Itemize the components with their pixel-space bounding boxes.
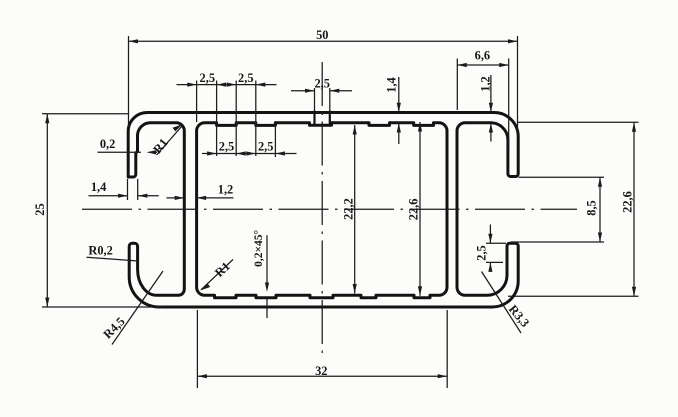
0,2 arrow [147, 150, 157, 154]
25 arrows [45, 114, 49, 307]
lower 2,5 pair: extension line [274, 121, 276, 157]
dim 50 line [129, 40, 518, 42]
dim 50 extension lines [129, 36, 518, 133]
R1 top leader [157, 126, 183, 155]
dim 22,6 right ext lines [508, 122, 639, 296]
R1 top arrow (pointing up-right) [173, 124, 183, 131]
centre line vertical [321, 62, 323, 358]
upper 2,5 dim line [177, 84, 277, 86]
dim 25 extension lines [42, 114, 164, 307]
top wall centre slot walls [315, 111, 330, 124]
dim 8,5 ext lines [511, 177, 604, 242]
upper 2,5 pair: extension lines [197, 81, 256, 157]
dim 25 line [46, 114, 48, 307]
dim 1,4 left lip: ext + line [89, 179, 159, 200]
svg-text:50: 50 [316, 28, 328, 42]
svg-text:22,6: 22,6 [407, 199, 421, 221]
svg-text:2,5: 2,5 [238, 71, 254, 85]
centre 2,5 arrows [305, 89, 339, 93]
dim 6,6 line [457, 64, 508, 66]
dim 6,6 extension lines [457, 59, 508, 151]
dim 22,6 right line [633, 122, 635, 296]
22,2 arrows [353, 125, 357, 294]
0,2x45 arrow [265, 283, 269, 293]
svg-text:1,4: 1,4 [384, 77, 398, 93]
profile outer contour [128, 113, 518, 308]
lower 2,5 arrows [207, 151, 285, 155]
centre 2,5 ext lines [315, 88, 330, 111]
22,6 inner arrows [418, 122, 422, 296]
svg-text:25: 25 [33, 203, 47, 215]
50 arrows [129, 39, 518, 43]
svg-text:0,2: 0,2 [100, 137, 116, 151]
svg-text:32: 32 [315, 364, 327, 378]
centre line horizontal [82, 208, 577, 210]
svg-text:R0,2: R0,2 [88, 244, 112, 258]
svg-text:2,5: 2,5 [474, 245, 488, 261]
6,6 arrows [457, 63, 508, 67]
svg-text:2,5: 2,5 [200, 71, 216, 85]
1,4 top arrows [397, 103, 401, 133]
centre 2,5 dim line [291, 90, 352, 92]
svg-text:8,5: 8,5 [585, 200, 599, 216]
dim 0,2 leader [98, 151, 158, 153]
2,5 bottom right arrows [488, 234, 492, 272]
svg-text:1,4: 1,4 [91, 180, 107, 194]
svg-text:2,5: 2,5 [314, 77, 330, 91]
dim 32 ext lines [197, 310, 447, 388]
svg-text:1,2: 1,2 [218, 183, 234, 197]
1,4 left arrows [118, 194, 147, 198]
R4,5 leader [112, 271, 163, 345]
0,2x45 leader [266, 235, 268, 318]
svg-text:1,2: 1,2 [479, 76, 493, 92]
dim 1,4 top wall [398, 77, 400, 144]
svg-text:2,5: 2,5 [219, 140, 235, 154]
svg-text:2,5: 2,5 [258, 140, 274, 154]
R1 bottom arrow (pointing down-left) [200, 283, 210, 290]
dim 1,2 left wall line [167, 197, 234, 199]
svg-text:22,6: 22,6 [621, 191, 635, 213]
8,5 arrows [598, 177, 602, 242]
upper 2,5 arrows [187, 83, 265, 87]
svg-text:22,2: 22,2 [342, 198, 356, 220]
dim 2,5 bottom right [486, 225, 506, 272]
svg-text:6,6: 6,6 [475, 49, 491, 63]
svg-text:0,2×45°: 0,2×45° [253, 229, 265, 266]
32 arrows [197, 374, 447, 378]
main tube inner cavity [197, 123, 447, 298]
dim 1,2 top wall right [490, 75, 492, 142]
R3,3 leader [482, 272, 522, 334]
lower 2,5 dim line [202, 153, 297, 155]
dim 32 line [197, 375, 447, 377]
R0,2 leader [87, 257, 139, 261]
R1 bottom leader [201, 260, 233, 290]
1,2 left arrows [175, 196, 206, 200]
dim 22,6 inner [419, 122, 421, 296]
dim 8,5 line [599, 177, 601, 242]
22,6 right arrows [632, 122, 636, 296]
dim 22,2 [354, 125, 356, 294]
1,2 top arrows [489, 103, 493, 133]
